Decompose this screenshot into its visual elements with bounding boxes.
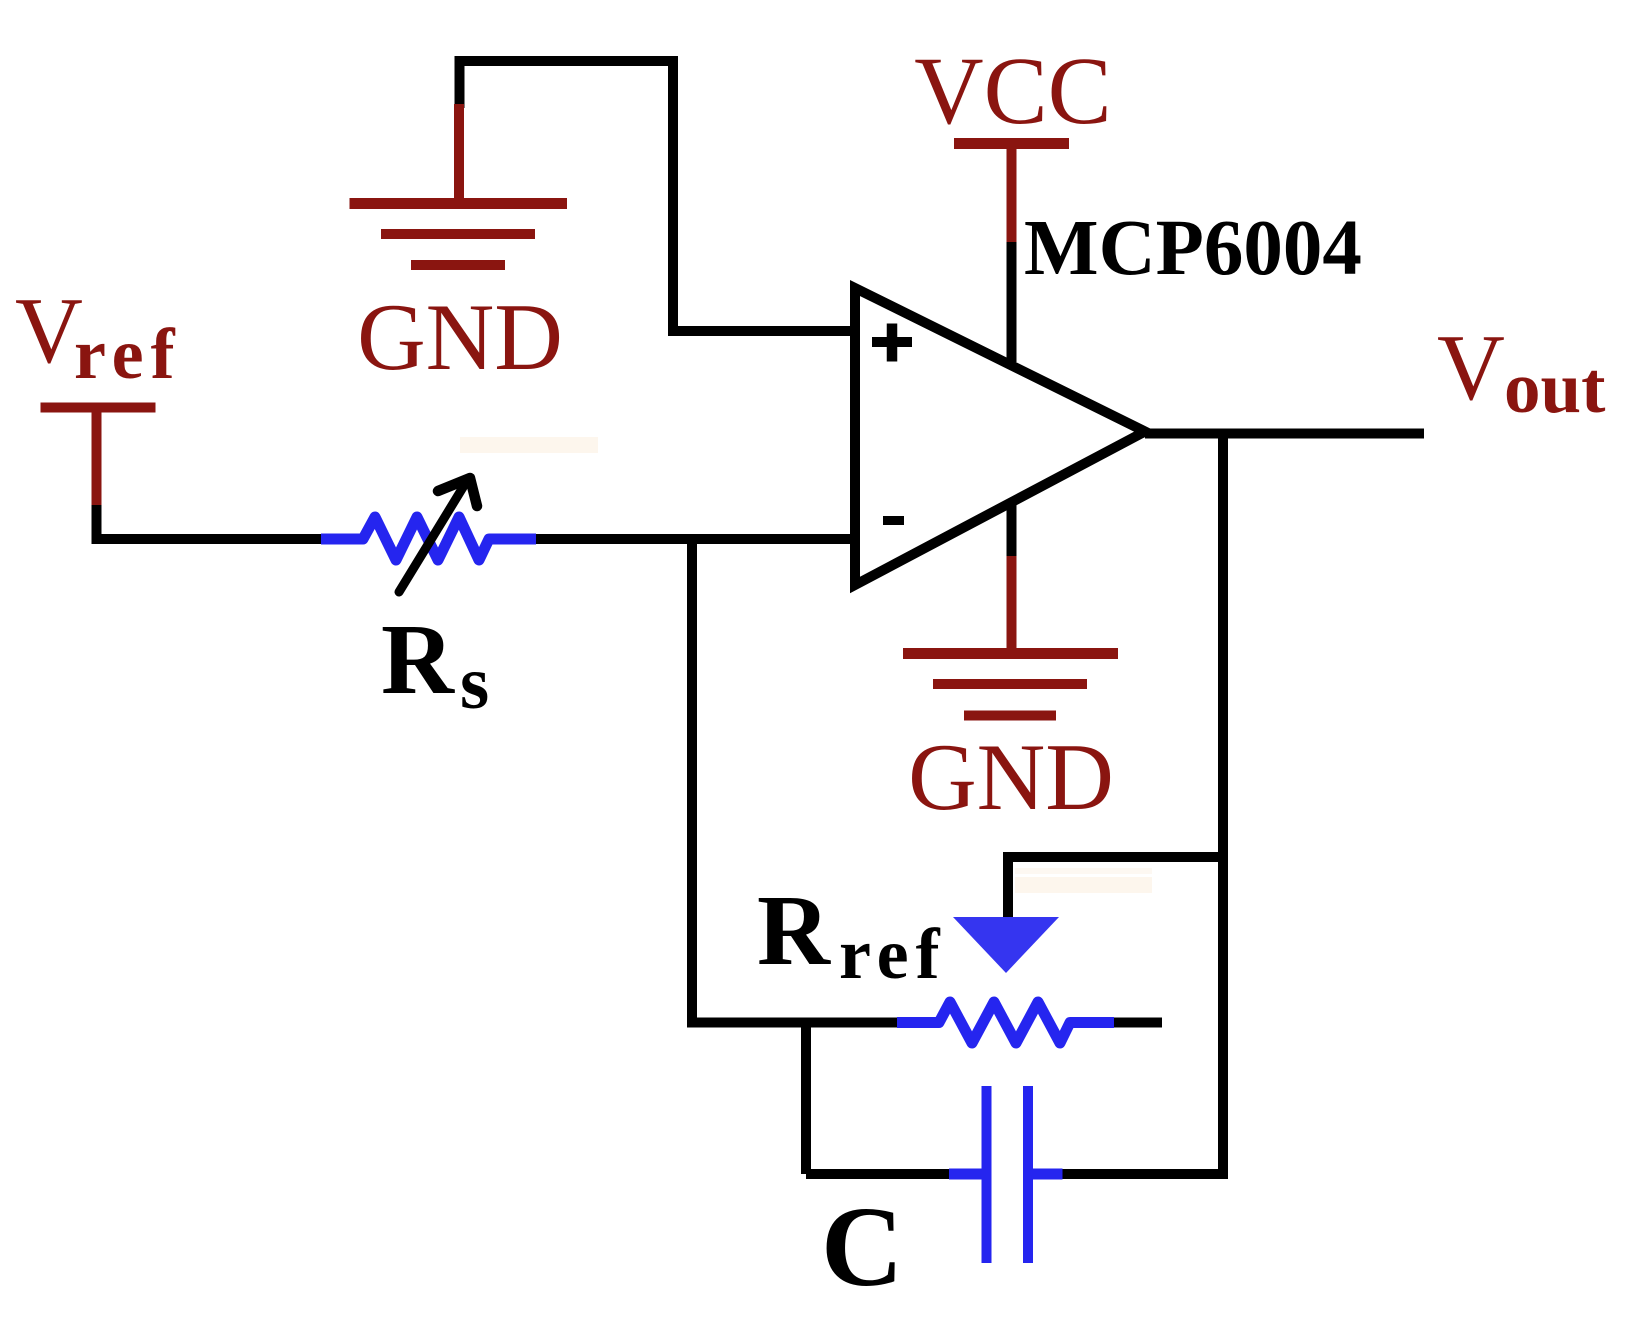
wire: branch down to capacitor bbox=[801, 1023, 811, 1175]
svg-text:GND: GND bbox=[357, 284, 563, 390]
op-amp U1 bbox=[855, 288, 1145, 585]
svg-text:V: V bbox=[15, 279, 83, 383]
op-amp + pin marker bbox=[872, 324, 912, 362]
wire: inverting node down to Rref bbox=[692, 536, 898, 1023]
svg-text:s: s bbox=[460, 642, 489, 725]
wire: noninverting input loop from GND1 to op-amp + input bbox=[460, 61, 852, 331]
capacitor C bbox=[949, 1086, 1063, 1263]
wiper arrow (blue) of Rref bbox=[953, 917, 1059, 973]
svg-text:MCP6004: MCP6004 bbox=[1024, 205, 1362, 292]
wire: Rref right stub bbox=[1114, 1018, 1162, 1028]
wire: inverting input left segment bbox=[97, 505, 324, 539]
resistor Rref bbox=[897, 1002, 1114, 1043]
svg-text:out: out bbox=[1504, 347, 1605, 428]
wire: output bbox=[1145, 429, 1424, 439]
svg-text:V: V bbox=[1437, 316, 1505, 420]
ground GND2 bbox=[903, 556, 1118, 716]
wire: bottom left of capacitor bbox=[806, 1169, 951, 1179]
resistor Rs (variable) bbox=[321, 517, 536, 560]
svg-text:C: C bbox=[821, 1183, 903, 1310]
wire: GND pin of op-amp bbox=[1007, 500, 1017, 558]
wire: VCC pin of op-amp bbox=[1007, 242, 1017, 362]
op-amp - pin marker bbox=[883, 516, 904, 525]
svg-text:VCC: VCC bbox=[914, 37, 1111, 144]
svg-text:ref: ref bbox=[839, 914, 947, 994]
wire: inverting input right segment bbox=[534, 534, 851, 544]
wire: wiper tap from feedback bbox=[1008, 857, 1227, 918]
svg-text:ref: ref bbox=[74, 314, 182, 394]
Rs wiper arrow (black) bbox=[399, 478, 477, 592]
svg-text:GND: GND bbox=[908, 724, 1114, 830]
wire: bottom right of capacitor bbox=[1062, 1169, 1228, 1179]
svg-text:R: R bbox=[381, 603, 455, 715]
ground GND1 bbox=[350, 104, 568, 265]
svg-text:R: R bbox=[757, 874, 831, 986]
wire: feedback from output bbox=[1218, 434, 1228, 1180]
